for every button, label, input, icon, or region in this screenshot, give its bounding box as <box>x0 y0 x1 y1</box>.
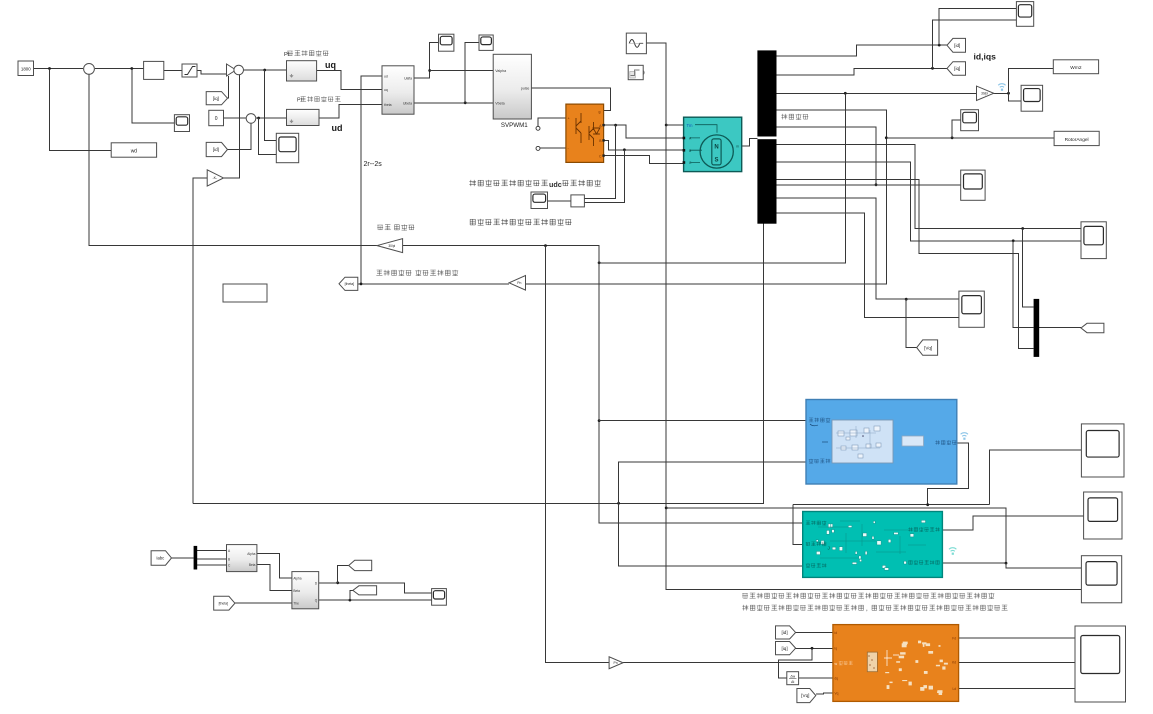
scope Sc8 angle <box>961 110 979 131</box>
wire 30pi out <box>994 92 1009 94</box>
junction ud scope tap <box>257 117 260 120</box>
svg-text:theta: theta <box>384 103 392 107</box>
sum current d <box>246 114 256 124</box>
svg-text:iq: iq <box>835 647 838 651</box>
wire current sum to PI1 <box>244 69 287 71</box>
wire From iq to observer2 <box>796 647 833 649</box>
junction mech angle <box>885 136 888 139</box>
wire ud to transform port <box>319 104 382 118</box>
wire torque meter out <box>928 443 969 505</box>
Wm2 display block <box>1053 60 1098 74</box>
Goto tag D <box>349 560 372 570</box>
svg-text:ud: ud <box>332 123 343 133</box>
wire Te to observer in3 <box>619 503 803 566</box>
junction iq deriv tap <box>811 647 814 650</box>
wire ia to scope Sc10 <box>777 145 1082 229</box>
From tag iq 2 <box>776 642 796 655</box>
svg-text:id,iqs: id,iqs <box>974 52 997 62</box>
inverter dc input port circle - <box>536 146 540 150</box>
scope Sc7 rpm <box>1021 85 1043 111</box>
signal builder block unconnected <box>628 65 644 79</box>
junction iq scope tap <box>931 67 934 70</box>
svg-text:Alpha: Alpha <box>247 552 255 556</box>
note load torque observer line2 <box>742 605 863 611</box>
gain 30pi rpm <box>977 86 994 100</box>
junction speed to torque meter <box>598 419 601 422</box>
wire torque to observer in2 <box>793 505 803 545</box>
scope Sc6 id iq <box>1016 2 1033 27</box>
wire dc+ stub <box>538 118 566 126</box>
wire alpha <box>257 554 292 579</box>
PI current controller q (PI1) <box>287 61 317 81</box>
label rotor speed teal <box>806 521 827 526</box>
svg-text:uq: uq <box>384 88 388 92</box>
wire From id to d sum <box>228 123 251 149</box>
scope Sc14 speed obs <box>1084 492 1122 539</box>
wire rpm to scope Sc7 <box>1009 93 1022 101</box>
scope Sc15 load obs <box>1081 556 1121 603</box>
wire ib to mux <box>1013 241 1033 327</box>
wire load obs east <box>942 562 1006 564</box>
wire PID to saturation <box>164 70 182 72</box>
scope Sc13 torque <box>1081 424 1124 477</box>
label torque preset teal <box>806 542 826 546</box>
wire obs2 out1 to scope Sc12 <box>959 637 1075 639</box>
svg-text:m: m <box>736 144 739 148</box>
sum current q <box>234 65 244 75</box>
wire Ubeta tap to scope Sc4 <box>465 43 479 103</box>
label torque measure out <box>935 440 956 445</box>
wire angle to scope Sc8 <box>952 120 961 138</box>
svg-text:[iq]: [iq] <box>954 66 960 71</box>
scope Sc5 line voltage <box>531 192 548 209</box>
svg-text:[Vq]: [Vq] <box>924 345 932 350</box>
From tag Iabc <box>151 551 171 566</box>
note load torque observer line1 <box>742 593 994 599</box>
svg-text:Wm2: Wm2 <box>1070 65 1082 71</box>
Goto tag Vq <box>917 340 938 355</box>
wire Pn2 to observer theta <box>623 662 833 664</box>
voltage measurement block <box>571 195 585 207</box>
From tag id <box>206 142 227 156</box>
junction id scope tap <box>938 44 941 47</box>
wifi icon 1 <box>998 84 1005 91</box>
svg-text:1800: 1800 <box>21 67 31 72</box>
wire torque to scope Sc13 <box>990 450 1082 505</box>
Goto tag iq <box>947 62 966 75</box>
dq to alphabeta transform block 2r-2s <box>382 66 414 114</box>
wire Ualfa to SVPWM Valpha <box>430 70 494 72</box>
svg-text:Tm: Tm <box>687 123 694 128</box>
junction load obs <box>1005 562 1008 565</box>
limiter triangle <box>227 64 237 76</box>
wire torque measure bus <box>793 504 990 506</box>
junction wref scope tap <box>130 67 133 70</box>
svg-text:Pn: Pn <box>517 281 521 285</box>
Goto tag id <box>947 38 966 52</box>
wire speed feedback down to gain K <box>193 178 207 503</box>
wire gain K to current sum <box>224 75 240 178</box>
junction angle scope tap <box>951 136 954 139</box>
svg-text:[id]: [id] <box>781 630 787 635</box>
label speed observe out <box>908 527 940 532</box>
wire ic to mux <box>777 179 1034 348</box>
wire demux c <box>197 564 226 566</box>
svg-text:2r--2s: 2r--2s <box>364 161 383 168</box>
speed PID block <box>144 61 164 79</box>
wire phase A <box>604 125 684 138</box>
label PI current regulator q <box>287 50 328 56</box>
svg-text:SVPWM1: SVPWM1 <box>501 122 528 129</box>
abc to alphabeta transform block <box>227 545 257 572</box>
Goto tag theta <box>339 277 358 290</box>
junction speed fb tap <box>844 92 847 95</box>
wire theta up to transform port <box>361 76 382 284</box>
svg-text:Pn: Pn <box>613 661 617 665</box>
wire mux to Goto Iabc <box>1039 326 1081 328</box>
label electrical angle orange <box>839 661 853 665</box>
wire ud tap to scope Sc2 in2 <box>259 118 277 155</box>
junction wref tap <box>48 67 51 70</box>
svg-text:[id]: [id] <box>213 147 219 152</box>
load torque observer block (orange) <box>833 625 959 702</box>
Goto tag Iabc out <box>1081 323 1104 332</box>
svg-text:Fd: Fd <box>952 637 956 641</box>
svg-text:The: The <box>293 602 299 606</box>
junction vq tag tap <box>905 298 908 301</box>
wire 1800 to speed sum <box>34 68 84 70</box>
junction ia <box>1021 227 1024 230</box>
svg-text:[iq]: [iq] <box>213 96 219 101</box>
wire bus Te down <box>777 127 877 185</box>
wire phase C <box>604 156 684 164</box>
inverter dc input port circle + <box>536 126 540 130</box>
wire speed to gain 30pi left <box>403 246 599 263</box>
wire D to Goto <box>338 565 349 582</box>
sine wave load torque source <box>626 33 646 54</box>
svg-text:N: N <box>714 144 718 150</box>
junction Tm <box>665 124 668 127</box>
wire bus is_d to Goto id <box>777 45 948 56</box>
wire mech angle to RotorAngel <box>886 137 1054 139</box>
wire derivative to observer2 <box>799 677 833 679</box>
wire voltmeter to scope Sc5 <box>548 200 571 202</box>
scope Sc12 observer outputs <box>1075 626 1126 702</box>
svg-text:PI: PI <box>284 52 290 58</box>
label stable frequency note <box>470 219 571 226</box>
svg-text:30/pi: 30/pi <box>981 91 988 95</box>
svg-text:[theta]: [theta] <box>219 601 228 605</box>
Goto tag Q <box>353 586 377 595</box>
gain Pn2 <box>609 657 623 669</box>
wifi icon 3 <box>949 548 956 555</box>
wire to Goto Vq <box>906 299 917 347</box>
wire tap to scope Sc1 <box>132 69 175 124</box>
wire ib to scope Sc10 <box>777 162 1082 241</box>
svg-text:Alpha: Alpha <box>293 577 301 581</box>
wire uq tap to scope Sc2 in1 <box>265 70 277 140</box>
svg-text:Vq: Vq <box>835 691 839 695</box>
wire speed to Pn2 <box>546 246 610 663</box>
PI current controller d (PI2) <box>287 109 320 125</box>
wire D to scope Sc16 <box>319 583 432 593</box>
scope Sc11 vd vq <box>959 291 984 327</box>
wire speed obs to scope Sc14 <box>942 516 1083 530</box>
wire bus is_q to Goto iq <box>777 68 948 75</box>
wire sine Tm trunk to scope Sc15 <box>646 43 1081 589</box>
svg-text:30/pi: 30/pi <box>388 244 395 248</box>
svg-text:uq: uq <box>325 60 336 70</box>
wire From Vq to observer2 <box>816 692 833 695</box>
wire beta <box>257 565 292 591</box>
constant 0 <box>209 110 224 125</box>
wire ia to mux <box>1023 229 1034 308</box>
wire saturation to iq limiter <box>197 71 227 75</box>
junction Te split <box>617 502 620 505</box>
wire bus to scope Sc9 <box>777 184 961 186</box>
wire id to scope Sc6 in1 <box>939 9 1016 46</box>
torque measurement subsystem (blue) <box>806 400 957 485</box>
wire rpm to Wm2 <box>1009 68 1054 93</box>
wire Q to scope Sc16 <box>319 599 432 601</box>
svg-text:B: B <box>228 557 230 561</box>
wire bus Te trunk west <box>193 224 764 504</box>
label em torque teal <box>806 563 827 568</box>
wire From theta to park <box>235 602 292 604</box>
wire obs2 out3 to scope Sc12 <box>959 688 1075 690</box>
wire Ubeta to SVPWM Vbeta <box>414 102 493 104</box>
svg-text:Vbeta: Vbeta <box>495 101 504 105</box>
wire motor m to bus <box>742 138 758 145</box>
wire wref to wd block <box>50 69 112 151</box>
svg-text:Valpha: Valpha <box>495 69 506 73</box>
PMSM motor block (cyan) <box>683 117 742 171</box>
wire Q to Goto <box>350 590 353 600</box>
junction speed Pn tap <box>544 244 547 247</box>
wire d sum to PI2 <box>256 117 287 119</box>
wire obs2 out2 to scope Sc12 <box>959 661 1075 663</box>
mux bar currents <box>1034 299 1040 357</box>
gain Pn <box>509 276 525 291</box>
wifi icon 2 <box>961 433 968 440</box>
wire Pn to Goto theta <box>358 283 509 285</box>
svg-text:pulse: pulse <box>521 87 530 91</box>
junction phase A tap <box>614 124 617 127</box>
junction uq scope tap <box>263 69 266 72</box>
svg-text:id: id <box>835 631 838 635</box>
wire load obs to scope Sc15 in1 <box>1006 563 1081 568</box>
label torque blue <box>809 459 831 464</box>
junction speed fb split <box>598 261 601 264</box>
junction Valpha <box>428 69 431 72</box>
svg-text:[id]: [id] <box>954 43 960 48</box>
wire mech angle to Pn <box>526 110 887 284</box>
wire phase A to voltmeter <box>584 125 615 198</box>
wire vd to scope Sc11 <box>777 198 959 299</box>
From tag iq <box>206 92 227 105</box>
svg-text:Ualfa: Ualfa <box>404 77 412 81</box>
svg-text:S: S <box>714 157 718 163</box>
From tag Vq 2 <box>797 689 816 703</box>
svg-text:Ld: Ld <box>952 687 956 691</box>
svg-text:J: J <box>828 546 830 551</box>
wire phase B <box>604 140 684 149</box>
svg-text:ud: ud <box>384 74 388 78</box>
derivative block dw/dt <box>787 672 799 685</box>
scope Sc4 Ubeta <box>479 35 493 50</box>
junction rpm <box>1007 92 1010 95</box>
svg-text:0: 0 <box>215 116 218 122</box>
load torque observer subsystem (teal) <box>803 512 943 578</box>
junction Q <box>349 599 352 602</box>
junction Vbeta scope tap <box>464 101 467 104</box>
wire From iq to limiter <box>228 76 229 98</box>
label inverter line voltage note <box>469 180 548 187</box>
svg-text:Δw: Δw <box>790 675 795 679</box>
wire dc- stub <box>540 147 566 149</box>
wire Ualfa up to scope Sc3 <box>414 43 439 78</box>
wire bus speed to gain 30pi <box>777 92 977 94</box>
svg-text:Beta: Beta <box>293 589 300 593</box>
empty annotation rectangle <box>223 284 267 302</box>
universal bridge inverter (orange) <box>566 104 605 162</box>
RotorAngel display block <box>1054 131 1099 145</box>
svg-text:wd: wd <box>131 149 138 155</box>
junction Tm obs tap <box>665 507 668 510</box>
scope Sc1 speed ref <box>174 115 189 132</box>
From tag id 2 <box>776 626 796 639</box>
svg-text:w: w <box>835 662 838 666</box>
wire speed to torque meter in1 <box>599 420 806 422</box>
svg-text:Kd: Kd <box>952 661 956 665</box>
svg-text:dq: dq <box>835 677 839 681</box>
label speed rpm <box>377 225 390 230</box>
svg-text:Ubeta: Ubeta <box>403 101 412 105</box>
svg-text:Δt: Δt <box>791 680 794 684</box>
wire demux a <box>197 550 226 552</box>
junction torque measure <box>926 503 929 506</box>
wire const0 to d sum <box>224 117 247 119</box>
wire From Iabc to demux <box>172 557 194 559</box>
svg-text:[iq]: [iq] <box>781 646 787 651</box>
label rotor speed blue <box>809 418 831 423</box>
gain 30pi feedback <box>377 239 403 253</box>
From tag theta <box>214 596 235 610</box>
scope Sc16 dq currents <box>432 589 447 606</box>
svg-text:[theta]: [theta] <box>345 282 354 286</box>
junction ib <box>1012 239 1015 242</box>
wire pulse to inverter g <box>531 88 610 111</box>
scope Sc10 currents <box>1081 222 1106 259</box>
bus selector bar top <box>757 50 776 136</box>
wd display block <box>111 143 156 157</box>
label load observe out <box>909 560 940 565</box>
wire speed fb west <box>599 93 845 262</box>
svg-text:udc: udc <box>549 180 562 189</box>
label mechanical angle <box>781 114 808 120</box>
alphabeta to dq transform block <box>292 572 319 609</box>
wire speed south trunk to observer w <box>599 263 803 523</box>
scope Sc3 Ualfa <box>439 34 454 51</box>
junction D <box>336 581 339 584</box>
wire iq to derivative <box>779 648 813 678</box>
wire vq to scope Sc11 in2 <box>777 213 959 318</box>
junction phase B tap <box>623 148 626 151</box>
junction theta <box>360 283 363 286</box>
SVPWM1 block <box>493 54 531 119</box>
constant 1800 speed reference <box>18 61 34 76</box>
svg-text:-K-: -K- <box>212 176 218 180</box>
scope Sc9 Te <box>961 170 985 200</box>
svg-text:Beta: Beta <box>249 563 256 567</box>
sum speed error <box>84 64 95 75</box>
bus selector bar bottom <box>757 139 776 224</box>
svg-text:,: , <box>866 606 868 613</box>
wire Te to torque meter in2 <box>619 462 806 503</box>
scope Sc2 uq ud <box>276 133 298 162</box>
wire phase B to voltmeter <box>584 150 624 203</box>
svg-text:PI: PI <box>297 98 302 104</box>
svg-text:RotorAngel: RotorAngel <box>1065 137 1089 143</box>
saturation block <box>182 64 197 77</box>
wire demux b <box>197 558 226 560</box>
svg-text:g: g <box>599 110 601 114</box>
wire Tm to load scope <box>666 508 1006 563</box>
wire uq to transform uq port <box>317 71 382 90</box>
label PI current regulator d <box>300 96 340 102</box>
svg-text:Iabc: Iabc <box>156 555 164 560</box>
wire iq to scope Sc6 in2 <box>933 20 1017 69</box>
wire Tm to motor <box>666 124 683 126</box>
gain K <box>207 170 223 186</box>
label multiply pole pairs <box>376 270 411 276</box>
demux bar Iabc <box>194 546 198 570</box>
wire From id to observer2 <box>796 632 833 634</box>
wire speed sum to speed PID <box>95 68 144 70</box>
svg-text:[Vq]: [Vq] <box>801 693 809 698</box>
wire speed loop feedback to speed sum <box>89 74 377 246</box>
junction Te <box>875 183 878 186</box>
